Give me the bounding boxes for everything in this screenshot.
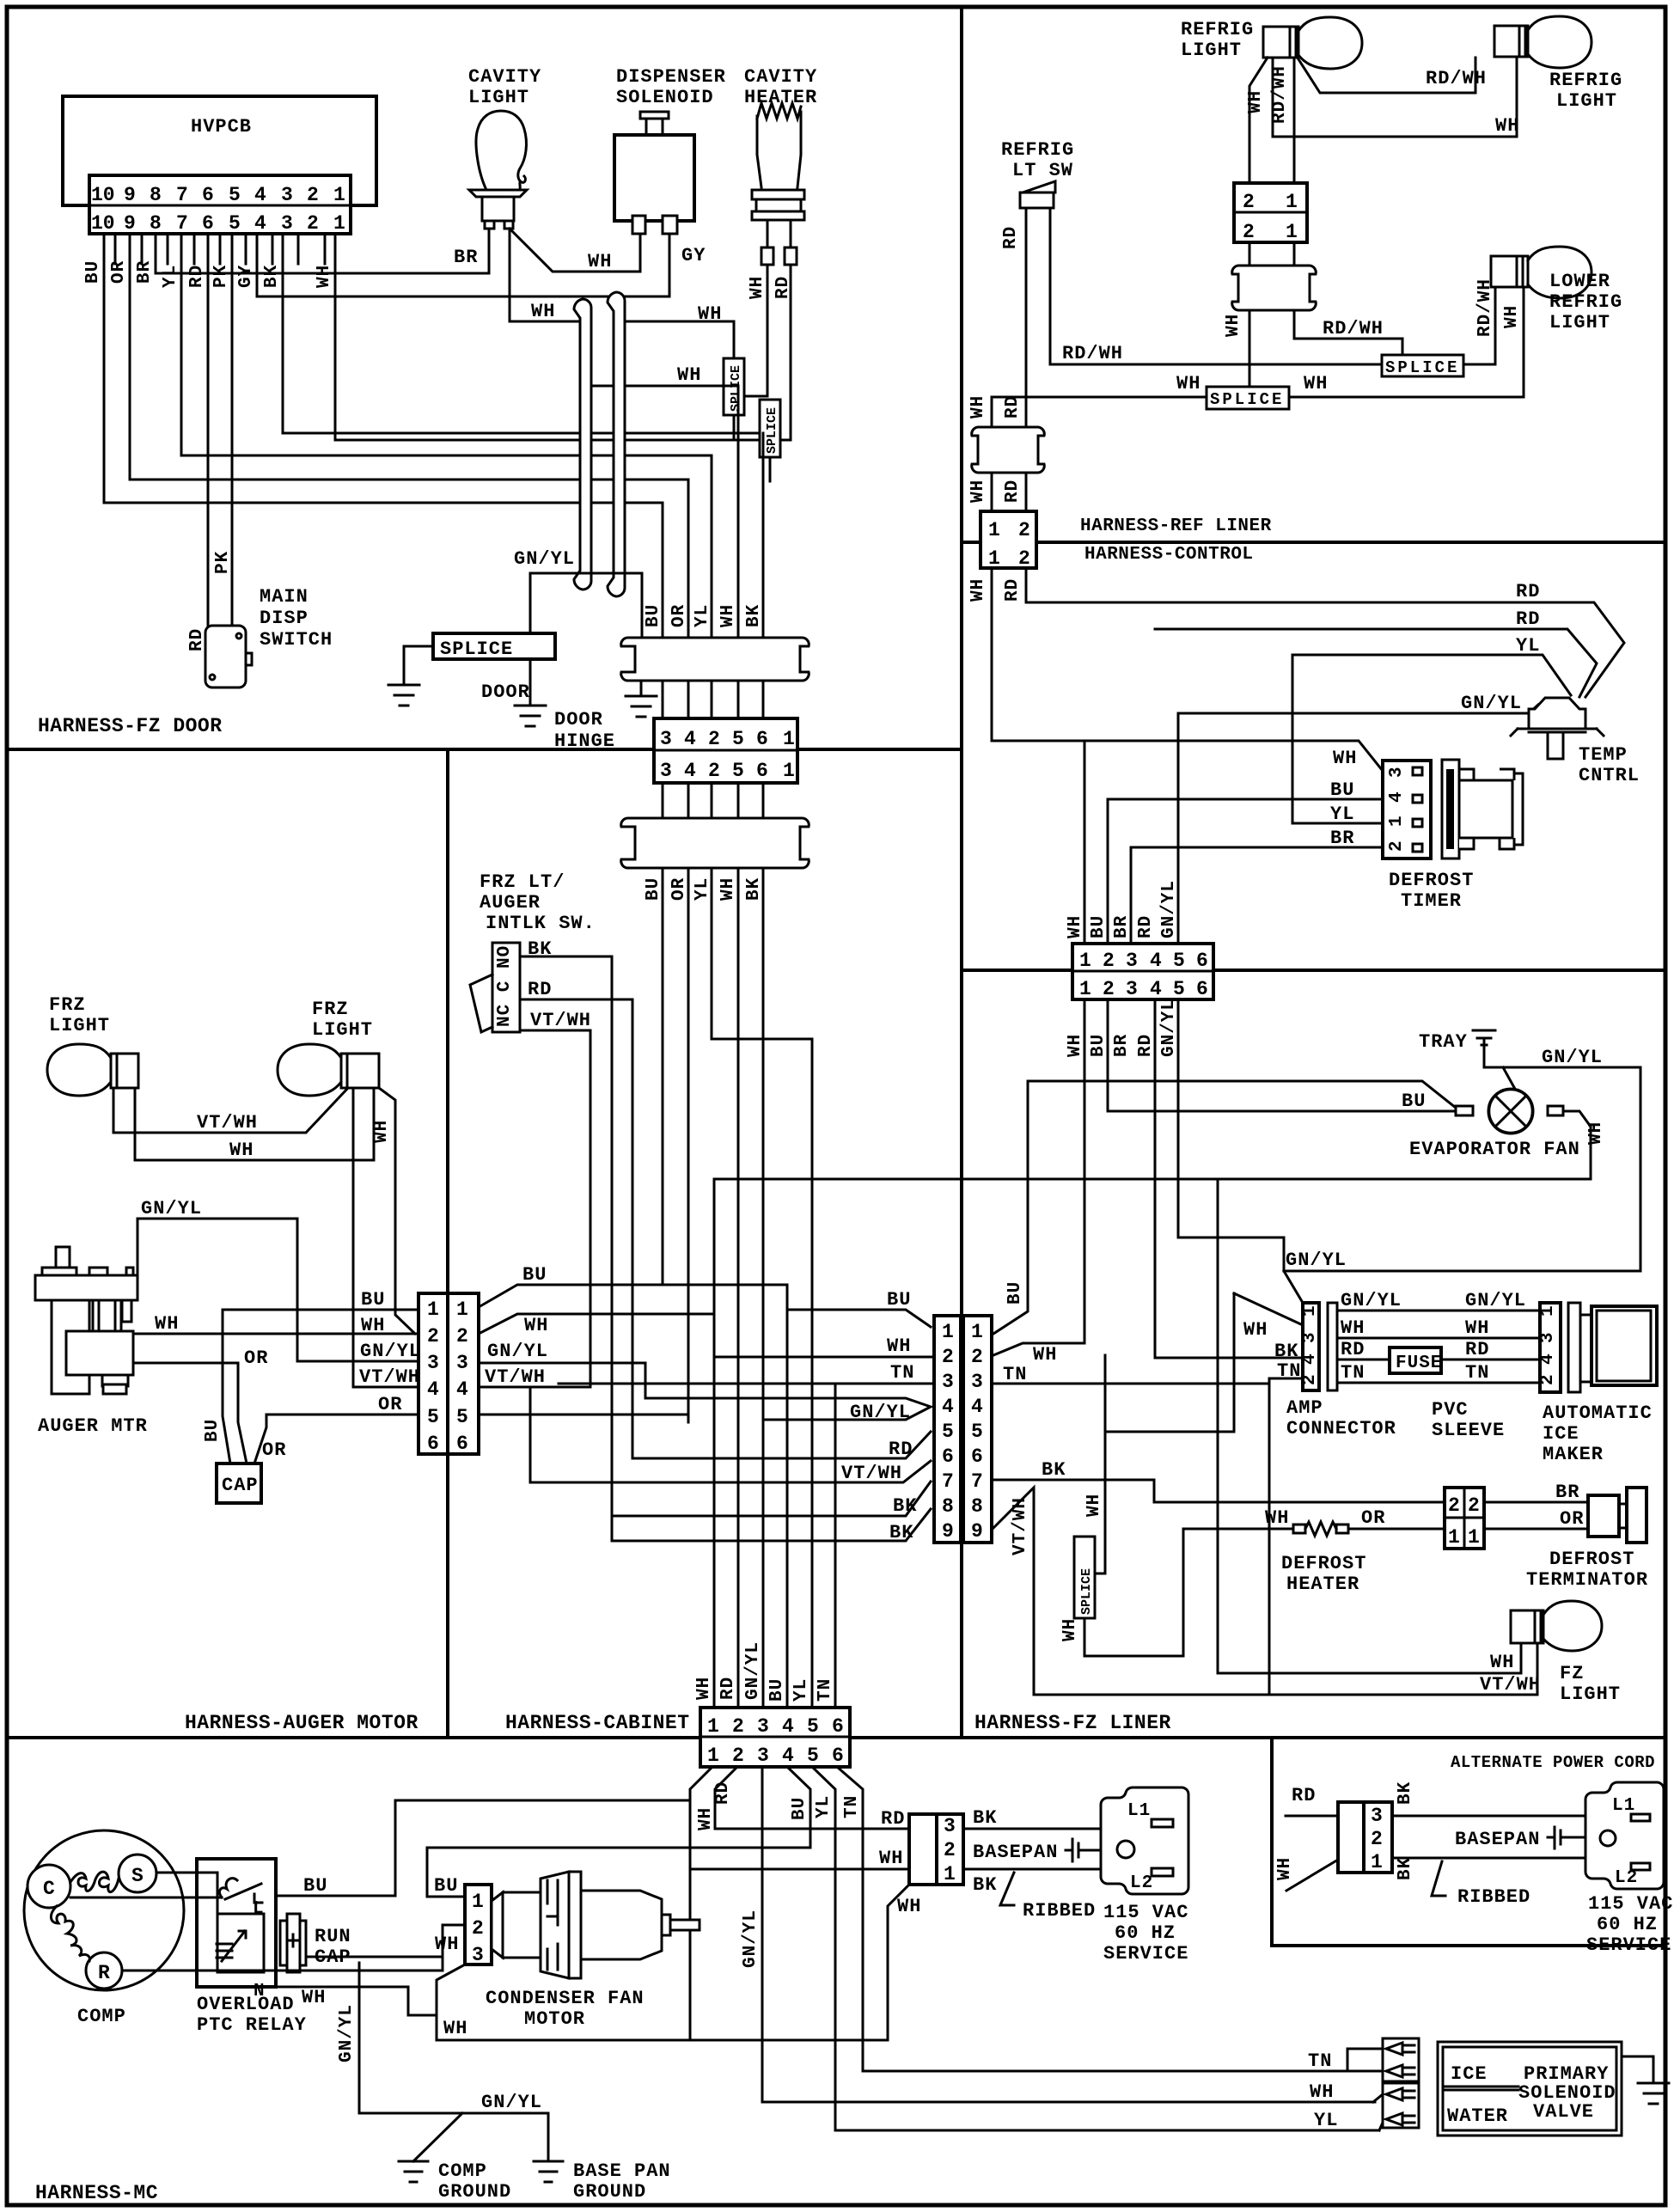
FZ light bulb [1543,1601,1602,1651]
svg-text:LIGHT: LIGHT [468,87,529,108]
svg-text:WH: WH [1265,1507,1289,1529]
svg-text:WH: WH [435,1934,459,1955]
svg-text:10: 10 [91,184,115,206]
overload box [197,1859,276,1987]
svg-text:4: 4 [782,1745,794,1767]
wire BK into AMP [1155,999,1303,1358]
svg-text:HEATER: HEATER [1286,1573,1359,1595]
HVPCB box [63,96,376,205]
wire GN/YL right of connector [479,1363,763,1398]
svg-text:AMP: AMP [1286,1397,1323,1419]
svg-text:6: 6 [832,1715,844,1738]
wire WH frz lights [135,1088,374,1160]
svg-text:EVAPORATOR FAN: EVAPORATOR FAN [1409,1139,1580,1160]
svg-text:GN/YL: GN/YL [514,548,575,570]
svg-text:5: 5 [732,728,744,750]
svg-text:YL: YL [161,265,180,288]
wire GN/YL below [762,1767,1373,2102]
svg-text:4: 4 [1300,1353,1320,1365]
svg-text:RD: RD [881,1808,905,1830]
wire GN/YL auger [137,1219,418,1361]
wire BU right of connector [479,1285,931,1327]
svg-text:TN: TN [1341,1362,1365,1384]
svg-text:BR: BR [454,247,478,268]
svg-text:6: 6 [942,1445,954,1468]
svg-text:WH: WH [229,1140,254,1161]
svg-text:BU: BU [1330,779,1354,801]
svg-text:2: 2 [971,1346,983,1368]
wire TN into AMP [1269,1378,1303,1380]
svg-text:6: 6 [756,760,768,782]
svg-text:RD: RD [528,979,552,1000]
svg-text:RD: RD [1001,226,1021,249]
door hinge connector [654,718,797,783]
bundle wires down to grommet [663,386,763,638]
svg-text:3: 3 [944,1815,956,1837]
lower refrig light bulb [1528,247,1592,298]
svg-text:AUGER MTR: AUGER MTR [38,1415,148,1437]
svg-text:C: C [43,1878,55,1900]
svg-text:2: 2 [1387,840,1407,852]
svg-text:2: 2 [708,760,720,782]
svg-text:VT/WH: VT/WH [530,1010,591,1031]
svg-text:COMP: COMP [77,2006,126,2027]
svg-text:OR: OR [669,604,689,627]
svg-text:WH: WH [1304,373,1328,394]
svg-text:7: 7 [176,184,188,206]
temp cntrl symbol [1529,698,1585,729]
svg-text:FUSE: FUSE [1396,1353,1442,1373]
svg-text:HARNESS-AUGER MOTOR: HARNESS-AUGER MOTOR [185,1712,418,1734]
svg-text:7: 7 [942,1470,954,1493]
svg-text:HVPCB: HVPCB [191,116,252,137]
defrost heater resistor [1293,1525,1305,1533]
svg-text:WH: WH [968,395,988,419]
valve ground [1622,2056,1669,2104]
svg-text:BU: BU [1005,1281,1025,1305]
svg-text:YL: YL [1516,635,1540,657]
svg-text:WH: WH [443,2018,467,2039]
wire WH2 y449 [582,385,738,388]
svg-text:RD: RD [1465,1339,1489,1360]
svg-text:9: 9 [971,1520,983,1543]
wire BU below [427,1767,810,1897]
svg-text:OR: OR [262,1439,286,1461]
svg-text:1: 1 [707,1745,719,1767]
wire TN 9pin right pin3 to AMP [992,1378,1269,1695]
svg-text:REFRIG: REFRIG [1001,139,1074,161]
svg-text:1: 1 [472,1891,484,1913]
wire WH below splice [1084,1529,1183,1656]
svg-text:VT/WH: VT/WH [359,1366,420,1388]
svg-text:OR: OR [378,1394,402,1415]
svg-text:RD: RD [1341,1339,1365,1360]
svg-text:DISP: DISP [260,608,309,629]
svg-text:WH: WH [718,604,738,627]
svg-text:BR: BR [1555,1482,1579,1503]
svg-text:RD/WH: RD/WH [1062,343,1123,364]
svg-text:115 VAC: 115 VAC [1588,1893,1673,1915]
wire WH RD to lower connector [992,397,1026,427]
svg-text:REFRIG: REFRIG [1181,19,1254,40]
svg-text:WH: WH [1033,1344,1057,1366]
alt BK top [1392,1815,1585,1818]
svg-text:1: 1 [1079,978,1091,1000]
wire WH2 return [1273,57,1517,137]
bundle wires continue into cabinet section [663,868,812,1708]
svg-text:ALTERNATE POWER CORD: ALTERNATE POWER CORD [1451,1753,1655,1772]
svg-text:WH: WH [897,1896,921,1917]
svg-text:RIBBED: RIBBED [1023,1900,1096,1922]
wire BR to timer [1131,847,1383,944]
svg-text:WH: WH [1066,1034,1085,1057]
svg-text:1: 1 [1079,950,1091,972]
valve connector top [1383,2038,1419,2081]
wire WH below grommet [1249,310,1251,364]
refrig light 2 bulb [1528,16,1592,68]
run cap [280,1921,306,1965]
svg-text:WH: WH [1246,90,1266,113]
wire splice to lower light RD/WH [1463,287,1495,364]
svg-text:DOOR: DOOR [554,709,603,730]
svg-text:DEFROST: DEFROST [1281,1553,1366,1574]
splice fz vertical [1074,1537,1095,1618]
svg-text:OR: OR [109,260,129,284]
svg-text:LIGHT: LIGHT [1549,312,1610,333]
svg-text:9: 9 [124,212,136,235]
wire WH into AMP [1234,1293,1303,1325]
dispenser solenoid body [640,112,669,119]
wire BU to timer [1108,799,1383,944]
RIBBED [1000,1873,1014,1905]
alt BK bottom [1392,1857,1585,1860]
svg-text:REFRIG: REFRIG [1549,291,1622,313]
svg-text:WH: WH [1060,1618,1080,1641]
defrost timer body [1442,760,1459,859]
svg-text:BASEPAN: BASEPAN [1455,1829,1540,1850]
frz light 2 socket [341,1054,379,1088]
wire YL to temp cntrl [1292,655,1571,695]
svg-text:4: 4 [254,184,266,206]
svg-text:BR: BR [1112,915,1132,938]
svg-text:BU: BU [790,1797,810,1820]
svg-text:R: R [98,1962,110,1984]
svg-text:BK: BK [1396,1781,1415,1805]
svg-text:BK: BK [744,604,764,627]
door hinge ground [626,696,657,717]
svg-text:2: 2 [1300,1373,1320,1385]
evaporator fan [1488,1089,1533,1133]
svg-text:YL: YL [791,1678,811,1702]
wire VT/WH 9pin pin9 [992,1488,1537,1695]
valve connector bottom [1383,2083,1419,2128]
svg-text:PTC RELAY: PTC RELAY [197,2014,307,2036]
svg-text:115 VAC: 115 VAC [1103,1902,1188,1923]
svg-text:WH: WH [1495,115,1519,137]
svg-text:3: 3 [456,1352,468,1374]
svg-text:CNTRL: CNTRL [1579,765,1640,786]
svg-text:RD: RD [1292,1785,1316,1806]
svg-text:VALVE: VALVE [1533,2101,1594,2123]
svg-text:GN/YL: GN/YL [141,1198,202,1219]
svg-text:2: 2 [1018,547,1030,570]
section divider vertical x=1119 [960,7,963,1738]
svg-text:PK: PK [211,265,231,288]
svg-text:BU: BU [644,604,663,627]
svg-text:RD: RD [718,1677,738,1700]
svg-text:3: 3 [1126,978,1138,1000]
intlk switch body [492,943,520,1032]
control 6-pin connector [1072,944,1213,999]
wire S to relay [156,1873,217,1914]
svg-text:SWITCH: SWITCH [260,629,333,651]
svg-text:BU: BU [522,1264,547,1286]
svg-text:6: 6 [1196,978,1208,1000]
alt plug [1585,1782,1664,1889]
cavity light base [469,190,527,197]
svg-text:5: 5 [1173,978,1185,1000]
svg-text:WH: WH [1084,1494,1104,1517]
svg-text:YL: YL [1314,2110,1338,2131]
svg-text:2: 2 [732,1715,744,1738]
svg-text:SPLICE: SPLICE [1385,358,1459,377]
svg-text:HARNESS-CONTROL: HARNESS-CONTROL [1084,545,1254,565]
svg-text:WH: WH [1465,1317,1489,1339]
door splice bottom ground [529,659,532,706]
svg-text:4: 4 [782,1715,794,1738]
wire BK2 into 9pin pin8 [612,1509,931,1541]
svg-text:2: 2 [472,1917,484,1940]
svg-text:BK: BK [973,1807,997,1829]
wire WH fan pin3 down [437,1965,888,2040]
COMP circle [24,1830,184,1990]
svg-text:WH: WH [531,301,555,322]
svg-text:3: 3 [1387,766,1407,778]
svg-text:5: 5 [971,1421,983,1443]
svg-text:2: 2 [427,1325,439,1347]
svg-text:OR: OR [1560,1508,1584,1530]
svg-text:BU: BU [361,1289,385,1311]
wire RD below [715,1767,909,1829]
svg-text:CONDENSER FAN: CONDENSER FAN [486,1988,645,2009]
svg-text:1: 1 [1387,815,1407,827]
wire R to run cap [122,1970,443,1972]
wire BK top basepan [963,1828,1101,1830]
svg-text:WH: WH [718,877,738,901]
section divider vertical x=521 [446,749,449,1738]
svg-text:WH: WH [677,364,701,386]
svg-text:6: 6 [202,212,214,235]
wire BU pin10 [104,234,663,503]
svg-text:DEFROST: DEFROST [1389,870,1474,891]
svg-text:4: 4 [971,1396,983,1418]
svg-text:2: 2 [307,212,319,235]
FZ light socket [1511,1610,1543,1643]
svg-text:RUN: RUN [315,1926,351,1947]
svg-text:10: 10 [91,212,115,235]
svg-text:GN/YL: GN/YL [481,2092,542,2113]
wires above control connector [1084,713,1178,944]
wire BK bottom basepan [963,1868,1101,1871]
lower refrig light socket [1491,256,1528,287]
condenser fan motor body [492,1892,503,1958]
svg-text:GN/YL: GN/YL [741,1910,761,1968]
wire TN below [837,1767,1347,2071]
svg-text:RD: RD [1003,395,1023,419]
svg-text:5: 5 [942,1421,954,1443]
svg-text:6: 6 [456,1433,468,1455]
svg-text:TN: TN [890,1362,914,1384]
svg-text:3: 3 [281,184,293,206]
svg-text:GY: GY [681,245,706,266]
svg-text:5: 5 [456,1406,468,1428]
wire RD/WH1 [1293,58,1296,183]
svg-text:BK: BK [1042,1459,1066,1481]
wire WH into basepan [690,1868,909,1871]
wire BK/BR 9pin pin7 to defrost [992,1480,1445,1502]
svg-text:8: 8 [150,184,162,206]
svg-text:RIBBED: RIBBED [1457,1886,1530,1908]
section divider horizontal y=1129 right [962,969,1665,972]
svg-text:SPLICE: SPLICE [729,365,743,412]
valve box [1438,2042,1622,2136]
svg-text:WH: WH [694,1677,714,1700]
svg-text:HARNESS-MC: HARNESS-MC [35,2182,158,2204]
svg-text:L2: L2 [1130,1873,1153,1893]
frz light 1 bulb [47,1044,111,1096]
svg-text:FRZ LT/: FRZ LT/ [480,871,565,893]
svg-text:BK: BK [973,1874,997,1896]
basepan connector [909,1814,937,1885]
alt connector [1338,1802,1364,1873]
svg-text:2: 2 [944,1839,956,1861]
wire WH below [690,1767,712,2040]
splice SP2 vertical [760,400,780,457]
defrost heater wire WH [1185,1528,1445,1531]
ice maker body [1580,1315,1592,1382]
svg-text:TN: TN [1277,1360,1301,1382]
wire WH diag below basepan [888,1885,909,2040]
svg-text:1: 1 [1286,221,1298,243]
svg-text:BASEPAN: BASEPAN [973,1842,1058,1863]
coil C-R [51,1906,89,1961]
svg-text:BK: BK [744,877,764,901]
wire BU vertical junction [786,1285,789,1708]
svg-text:2: 2 [1103,950,1115,972]
svg-text:2: 2 [307,184,319,206]
svg-text:SPLICE: SPLICE [440,639,513,660]
svg-text:2: 2 [1103,978,1115,1000]
svg-text:2: 2 [732,1745,744,1767]
wire GN/YL evap fan [1503,1067,1640,1271]
wire RD/WH below grommet [1294,310,1402,355]
svg-text:GROUND: GROUND [438,2181,511,2203]
defrost timer connector [1383,761,1431,859]
wire OR auger to CAP [133,1363,247,1463]
svg-text:WH: WH [524,1315,548,1336]
svg-text:RD: RD [1136,915,1156,938]
svg-text:7: 7 [971,1470,983,1493]
svg-text:WH: WH [968,578,988,602]
wire RD pin6 [208,234,214,666]
svg-text:8: 8 [971,1495,983,1518]
refrig lt sw [1020,192,1054,208]
wire WH to defrost timer [992,741,1383,771]
svg-text:BK: BK [1396,1857,1415,1880]
wire BU 9pin right to evap fan [993,1081,1456,1334]
svg-text:GY: GY [236,265,256,288]
svg-text:2: 2 [1018,519,1030,541]
svg-text:5: 5 [732,760,744,782]
wire TN into 9pin [559,1383,934,1385]
wire GY pin4 [257,234,669,296]
PVC sleeve wires [1337,1310,1540,1312]
svg-text:4: 4 [1538,1353,1558,1365]
svg-text:L1: L1 [1127,1801,1151,1821]
wire cavity light diag to WH [510,229,640,272]
svg-text:BU: BU [644,877,663,901]
svg-text:4: 4 [942,1396,954,1418]
svg-text:1: 1 [1286,191,1298,213]
svg-text:BU: BU [203,1419,223,1442]
svg-text:WH: WH [1502,305,1522,328]
svg-text:1: 1 [971,1321,983,1343]
svg-text:ICE: ICE [1451,2063,1488,2085]
HVPCB connector 2x10 [89,175,351,234]
heater wires [767,220,791,247]
svg-text:PVC: PVC [1432,1399,1469,1421]
svg-text:3: 3 [1538,1331,1558,1343]
wire BK pin3 [283,234,763,433]
svg-text:RD: RD [187,265,207,288]
svg-text:WH: WH [748,276,767,299]
svg-text:1: 1 [783,760,795,782]
wire WH cavity to splice [733,321,736,440]
svg-text:WH: WH [1341,1317,1365,1339]
alt RD wire [1286,1815,1338,1818]
wire WH run cap to fan pin2 [306,1925,465,1971]
svg-text:TN: TN [1465,1362,1489,1384]
svg-text:WH: WH [315,265,334,288]
bottom 6-pin connector [700,1708,850,1767]
svg-text:2: 2 [942,1346,954,1368]
svg-text:GN/YL: GN/YL [1159,999,1179,1057]
alternate power cord box [1272,1738,1665,1946]
svg-text:TERMINATOR: TERMINATOR [1526,1569,1648,1591]
svg-text:RD: RD [1516,581,1540,602]
svg-text:5: 5 [229,184,241,206]
CAP box [217,1463,261,1503]
svg-text:WH: WH [1490,1652,1514,1673]
frz light 2 bulb [278,1044,341,1096]
wire VT/WH frz lights [113,1088,348,1133]
svg-text:6: 6 [1196,950,1208,972]
svg-text:9: 9 [942,1520,954,1543]
svg-text:REFRIG: REFRIG [1549,70,1622,91]
svg-text:BU: BU [887,1289,911,1311]
svg-text:FRZ: FRZ [49,994,86,1016]
svg-text:BU: BU [434,1875,458,1897]
svg-text:RD/WH: RD/WH [1323,318,1384,339]
svg-text:RD: RD [889,1439,913,1460]
svg-text:5: 5 [427,1406,439,1428]
wire RD into 9pin [632,1432,931,1458]
svg-text:FRZ: FRZ [312,999,349,1020]
wire BU from overload [276,1800,690,1896]
wire GN/YL to temp cntrl [1178,705,1538,713]
main disp switch [205,626,246,687]
PTC inside overload [217,1914,264,1972]
